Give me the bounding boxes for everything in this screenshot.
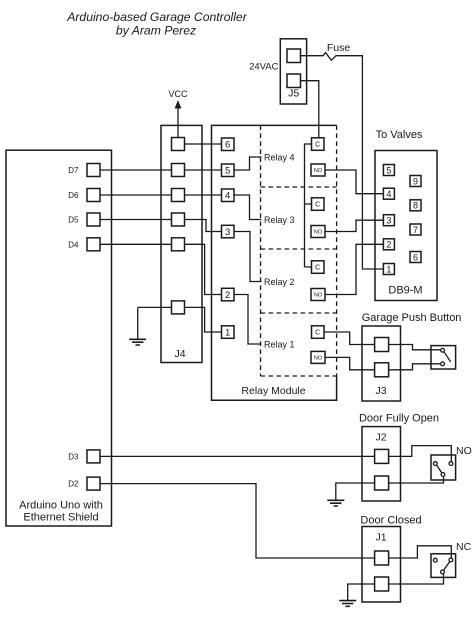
svg-text:Ethernet Shield: Ethernet Shield (23, 512, 98, 524)
svg-text:D3: D3 (68, 452, 79, 461)
svg-text:3: 3 (386, 216, 391, 226)
svg-text:Fuse: Fuse (327, 42, 351, 54)
svg-text:24VAC: 24VAC (249, 62, 279, 73)
svg-text:5: 5 (225, 166, 230, 177)
svg-text:NO: NO (314, 356, 323, 362)
svg-text:7: 7 (413, 225, 418, 235)
svg-text:9: 9 (413, 176, 418, 186)
svg-text:J4: J4 (174, 348, 185, 360)
svg-text:Arduino-based Garage Controlle: Arduino-based Garage Controller (66, 10, 247, 24)
svg-text:4: 4 (386, 189, 391, 199)
svg-text:C: C (315, 142, 320, 149)
svg-text:Garage Push Button: Garage Push Button (362, 312, 462, 324)
svg-text:DB9-M: DB9-M (388, 285, 422, 297)
svg-text:3: 3 (225, 227, 230, 238)
svg-text:by Aram Perez: by Aram Perez (116, 24, 196, 38)
svg-text:D6: D6 (68, 191, 79, 200)
svg-text:2: 2 (225, 290, 230, 301)
svg-text:1: 1 (386, 264, 391, 274)
svg-text:D4: D4 (68, 240, 79, 249)
svg-text:4: 4 (225, 191, 230, 202)
svg-text:8: 8 (413, 201, 418, 211)
svg-text:VCC: VCC (168, 89, 188, 99)
svg-text:Arduino Uno with: Arduino Uno with (19, 500, 103, 512)
svg-text:C: C (315, 202, 320, 209)
svg-text:Relay 2: Relay 2 (264, 277, 295, 287)
svg-text:Relay 4: Relay 4 (264, 152, 295, 162)
svg-text:6: 6 (413, 252, 418, 262)
svg-text:Relay 3: Relay 3 (264, 215, 295, 225)
svg-text:C: C (315, 265, 320, 272)
svg-text:Door Fully Open: Door Fully Open (359, 413, 439, 425)
svg-text:NO: NO (314, 168, 323, 174)
svg-text:NO: NO (314, 293, 323, 299)
svg-text:2: 2 (386, 240, 391, 250)
svg-text:J2: J2 (375, 432, 386, 444)
svg-text:5: 5 (386, 165, 391, 175)
svg-text:1: 1 (225, 327, 230, 338)
svg-text:NO: NO (456, 445, 472, 457)
svg-text:NC: NC (456, 541, 472, 553)
svg-text:J3: J3 (375, 385, 386, 397)
svg-text:C: C (315, 330, 320, 337)
svg-text:NO: NO (314, 230, 323, 236)
svg-text:Door Closed: Door Closed (360, 515, 421, 527)
svg-text:J1: J1 (375, 532, 386, 544)
svg-text:D7: D7 (68, 166, 79, 175)
svg-text:Relay Module: Relay Module (241, 385, 305, 397)
svg-text:6: 6 (225, 140, 230, 151)
svg-text:To Valves: To Valves (376, 129, 423, 141)
svg-text:J5: J5 (288, 88, 299, 100)
svg-text:Relay 1: Relay 1 (264, 339, 295, 349)
svg-text:D5: D5 (68, 216, 79, 225)
svg-text:D2: D2 (68, 480, 79, 489)
